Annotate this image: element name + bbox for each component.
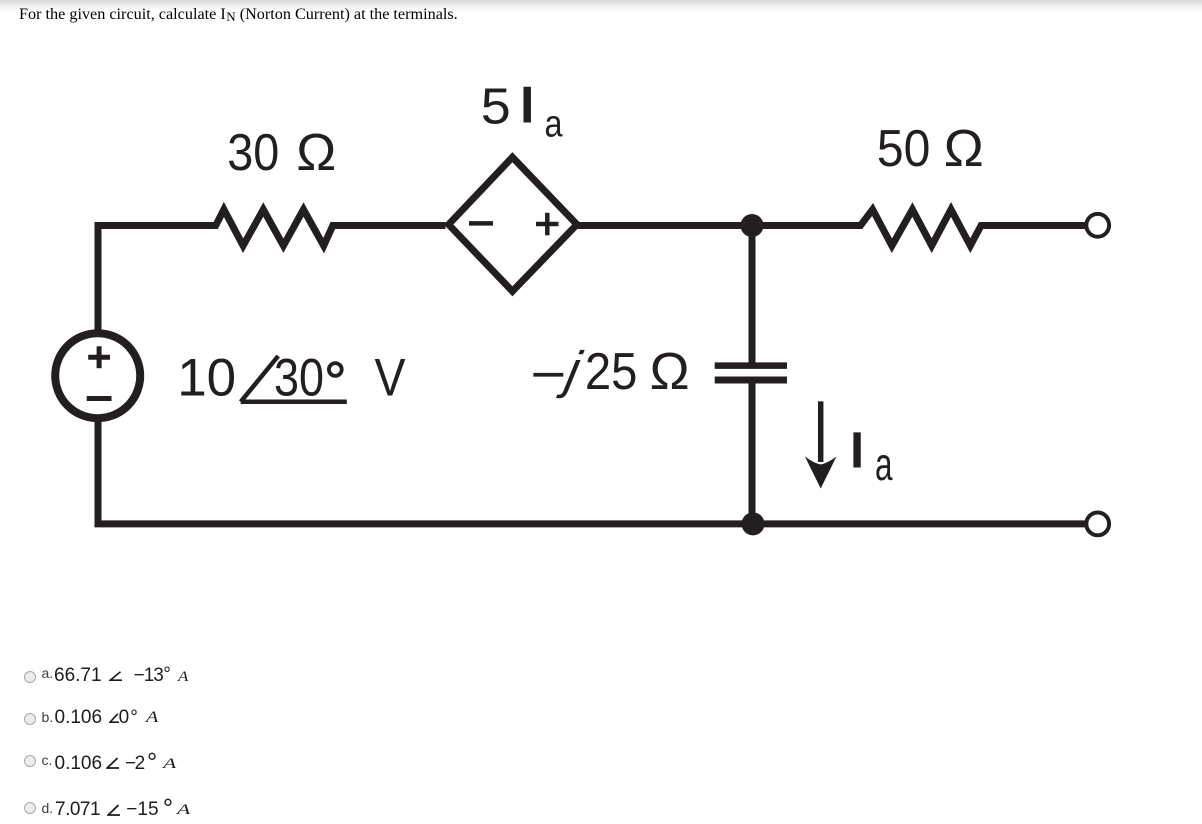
option d	[0, 0, 1202, 1]
dependent source U1 diamond	[449, 157, 577, 291]
capacitor C1 bottom plate	[715, 377, 787, 384]
plus sign inside diamond	[536, 213, 559, 236]
terminal (bottom right)	[1086, 513, 1109, 536]
option a	[0, 0, 1202, 1]
voltage source plus sign	[88, 346, 110, 368]
svg-text:a: a	[875, 438, 893, 490]
minus sign inside diamond	[469, 221, 493, 226]
svg-text:Ω: Ω	[650, 343, 690, 401]
capacitor C1 top plate	[715, 362, 787, 369]
svg-text:−: −	[530, 346, 566, 404]
svg-text:a: a	[545, 104, 564, 146]
svg-text:V: V	[375, 349, 407, 408]
resistor R1 30ohm with left wire leads	[98, 210, 446, 333]
option b	[0, 0, 1202, 1]
wire: capacitor branch upper	[749, 226, 756, 364]
wire: diamond right vertex to top node	[578, 222, 752, 229]
node A junction dot (top)	[741, 214, 764, 237]
node B junction dot (bottom)	[742, 512, 765, 535]
wire: capacitor branch lower	[749, 380, 756, 524]
svg-text:30: 30	[227, 124, 279, 182]
angle symbol underline	[241, 400, 347, 405]
voltage source VS circle	[55, 333, 140, 418]
question title	[19, 5, 458, 24]
svg-text:10: 10	[177, 349, 236, 408]
voltage source minus sign	[87, 396, 112, 401]
svg-text:25: 25	[585, 343, 638, 401]
wire: left vertical below source + bottom horizontal	[98, 420, 1085, 524]
svg-text:Ω: Ω	[944, 120, 984, 178]
degree circle of 30deg	[329, 363, 342, 376]
svg-text:Ω: Ω	[296, 124, 336, 182]
angle symbol slant line	[241, 356, 279, 402]
terminal (top right)	[1086, 214, 1109, 237]
top gradient shadow	[0, 0, 1202, 12]
svg-text:I: I	[520, 77, 534, 135]
svg-text:30: 30	[274, 349, 324, 408]
svg-text:50: 50	[877, 120, 931, 178]
option c	[0, 0, 1202, 1]
current Ia arrow	[818, 401, 824, 462]
svg-text:I: I	[850, 422, 864, 479]
svg-text:5: 5	[481, 78, 511, 135]
resistor R2 50ohm with leads	[752, 210, 1085, 246]
